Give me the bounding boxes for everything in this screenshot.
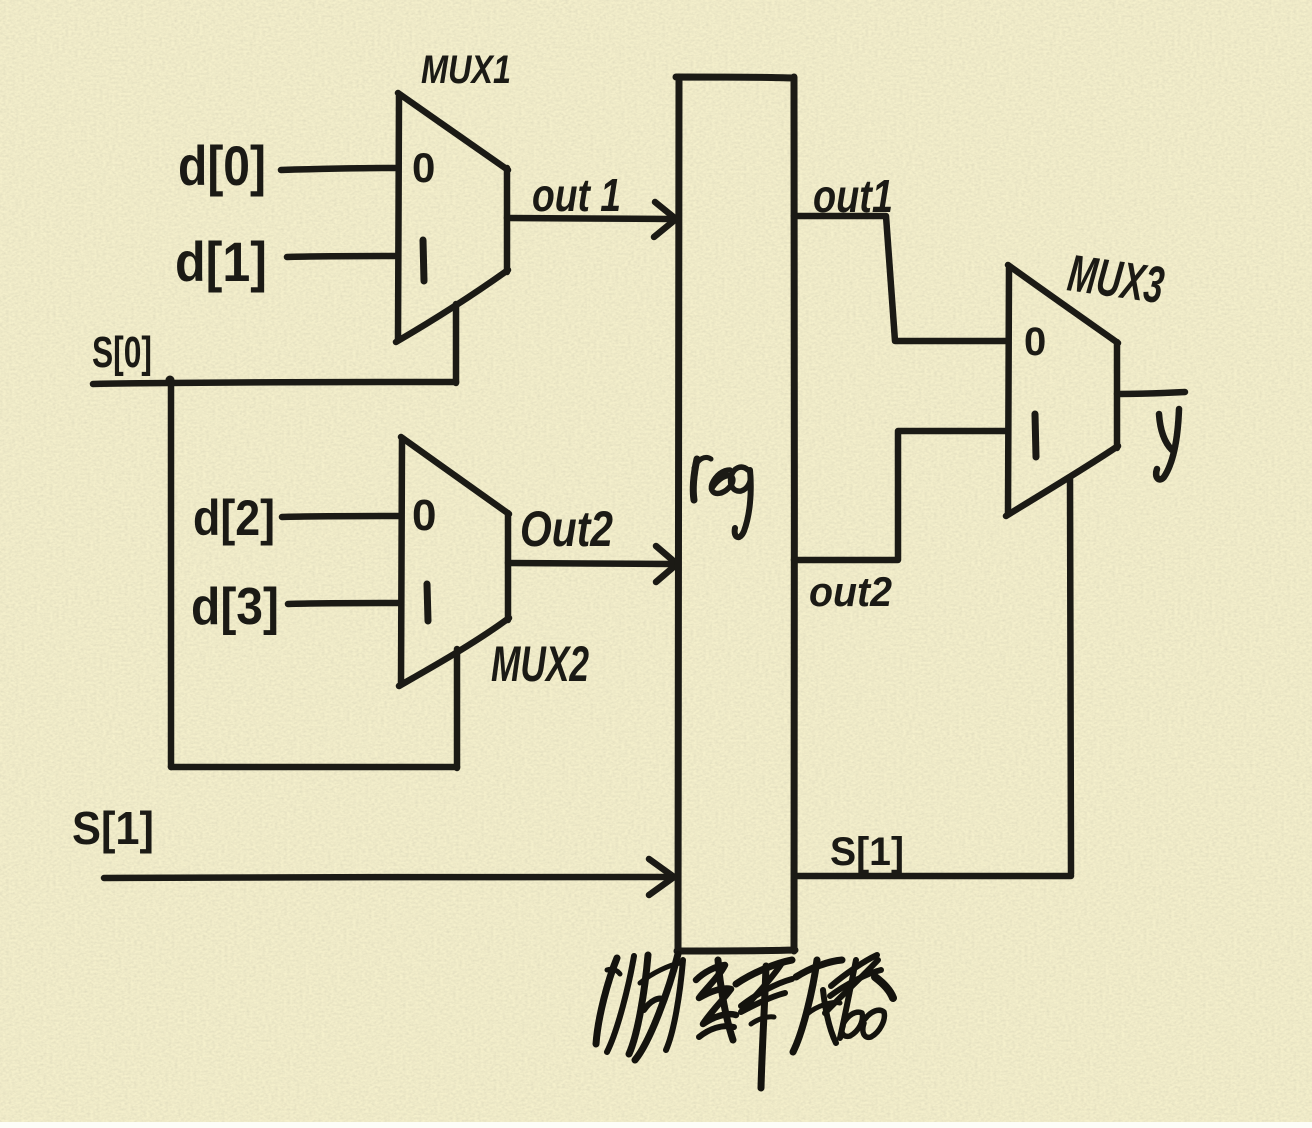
svg-text:out2: out2 bbox=[809, 568, 892, 615]
svg-text:out1: out1 bbox=[813, 170, 893, 222]
svg-text:0: 0 bbox=[1024, 320, 1046, 364]
svg-text:d[1]: d[1] bbox=[175, 230, 267, 293]
svg-text:d[0]: d[0] bbox=[178, 134, 266, 197]
svg-text:S[1]: S[1] bbox=[72, 802, 154, 854]
svg-text:d[2]: d[2] bbox=[193, 490, 275, 546]
svg-text:0: 0 bbox=[412, 491, 436, 540]
svg-text:S[1]: S[1] bbox=[830, 830, 904, 874]
svg-text:d[3]: d[3] bbox=[191, 578, 279, 636]
svg-text:Out2: Out2 bbox=[520, 501, 613, 557]
svg-text:MUX1: MUX1 bbox=[421, 48, 511, 92]
svg-text:S[0]: S[0] bbox=[92, 328, 152, 377]
svg-text:out 1: out 1 bbox=[532, 169, 621, 221]
svg-text:MUX2: MUX2 bbox=[491, 636, 589, 692]
svg-text:0: 0 bbox=[412, 144, 435, 191]
